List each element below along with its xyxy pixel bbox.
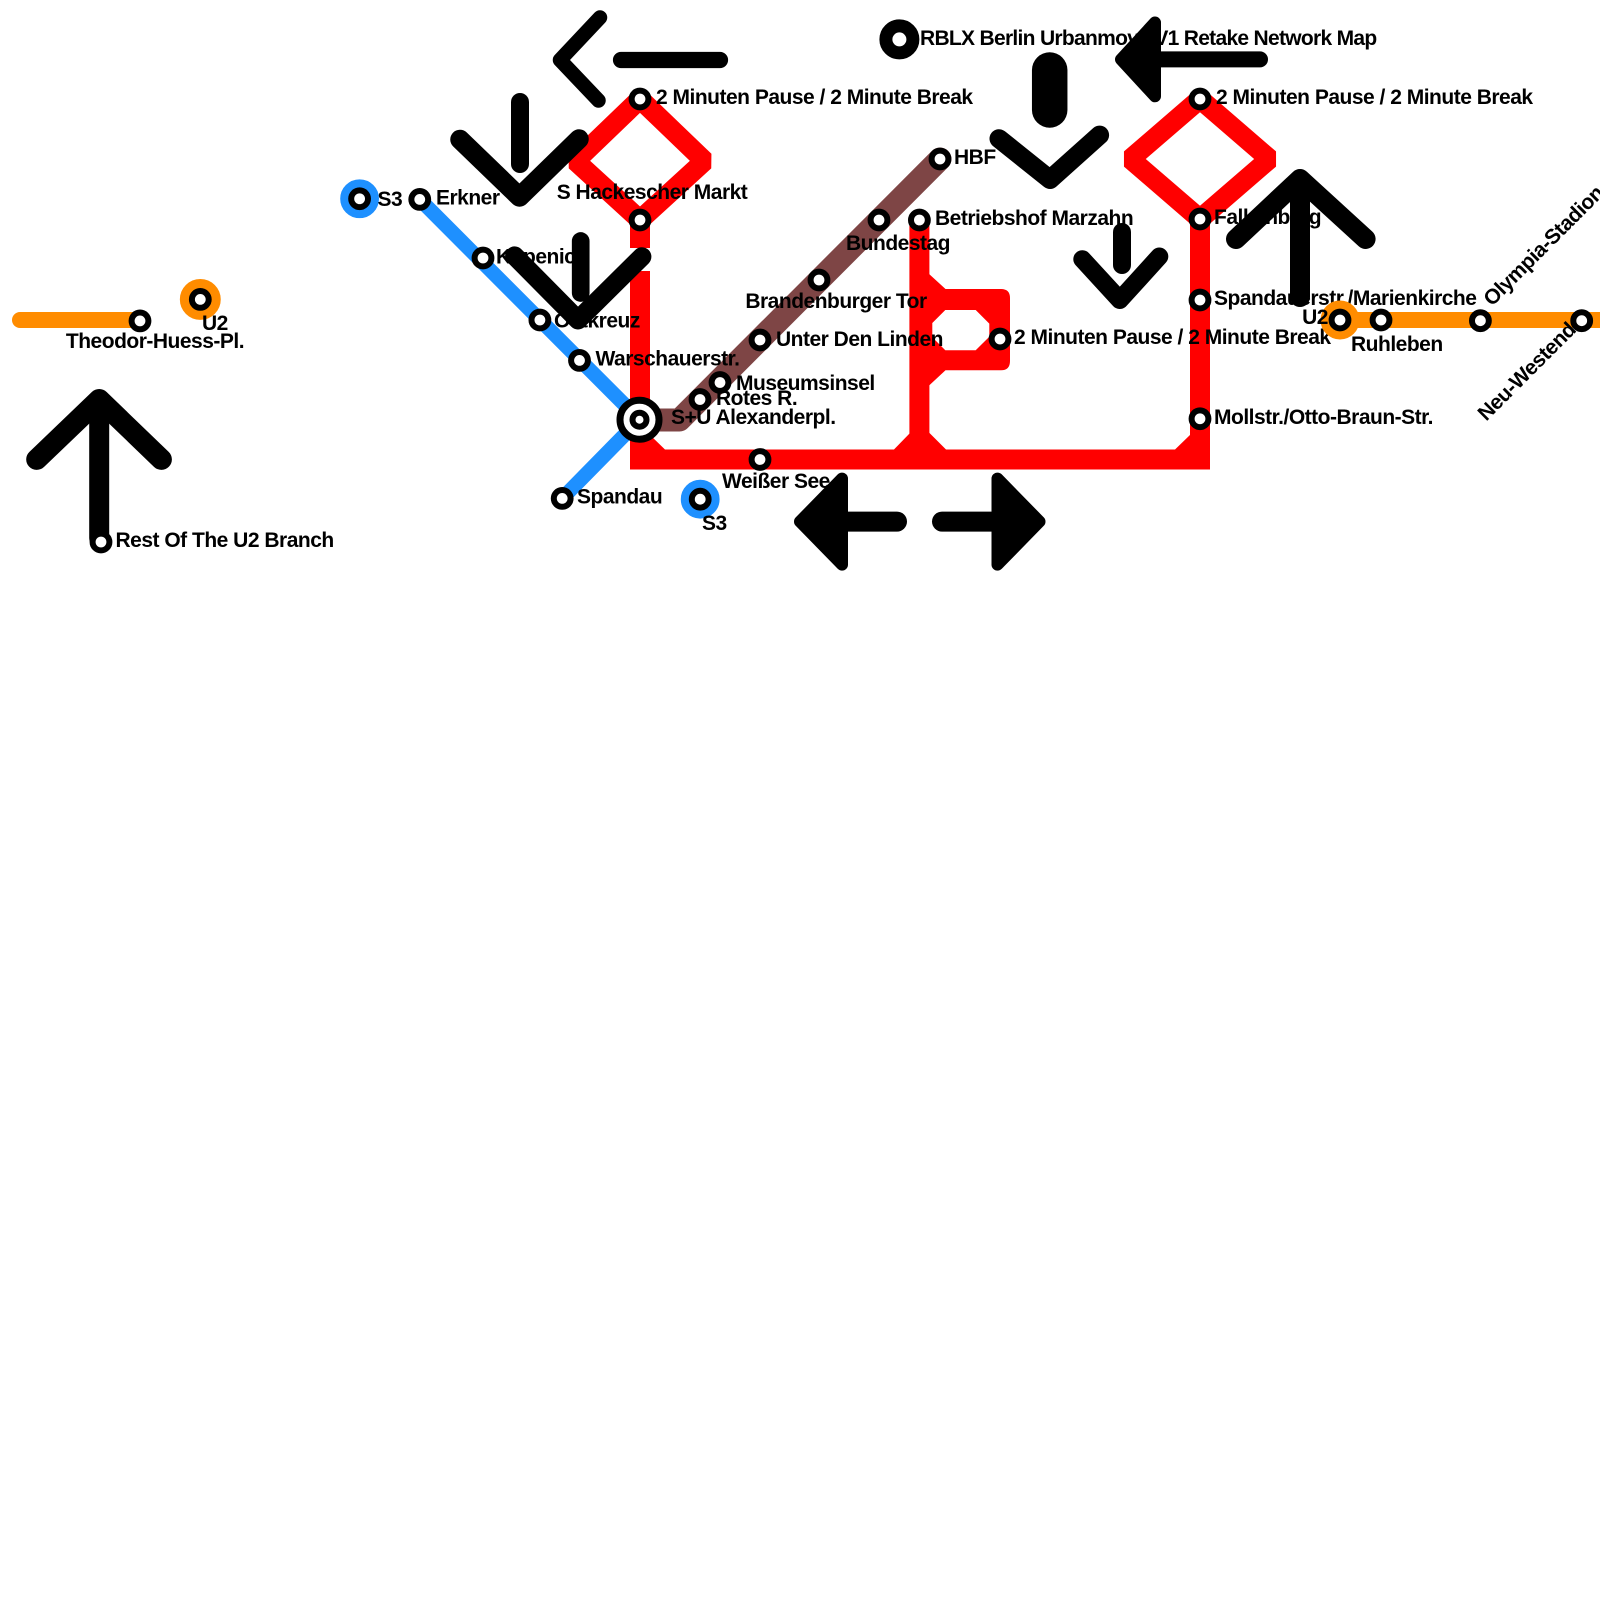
red corner fillet left (649, 434, 666, 451)
arrow right bottom (942, 512, 994, 532)
station Koepenick (475, 250, 492, 267)
title arrow left (1150, 51, 1260, 67)
station Ruhleben (1373, 312, 1390, 329)
station Mollstr Otto-Braun-Str (1192, 410, 1209, 427)
bar top-left (621, 52, 720, 68)
U2 terminal ring left (186, 285, 215, 314)
station Warschauerstr (571, 352, 588, 369)
svg-text:Ostkreuz: Ostkreuz (554, 309, 640, 332)
red main loop: left vertical, bottom horizontal, right vertical (640, 219, 1200, 460)
station Theodor-Huess-Pl. (132, 313, 149, 330)
station Falkenberg (1192, 211, 1209, 228)
svg-text:Brandenburger Tor: Brandenburger Tor (745, 290, 927, 313)
S3 terminal ring left (345, 184, 374, 213)
svg-text:Falkenberg: Falkenberg (1214, 206, 1321, 229)
black capsule bar (1032, 70, 1068, 110)
U2 terminal ring right (1326, 306, 1354, 334)
arrow left bottom (845, 512, 897, 532)
line U2 right orange (1340, 312, 1600, 328)
station 2 Minuten Pause P loop (992, 331, 1009, 348)
arrow down (Marzahn) (1113, 232, 1131, 265)
station Erkner (411, 191, 428, 208)
station S Hackescher Markt (632, 212, 649, 229)
svg-text:Mollstr./Otto-Braun-Str.: Mollstr./Otto-Braun-Str. (1214, 406, 1433, 429)
svg-text:Museumsinsel: Museumsinsel (736, 372, 875, 395)
station S+U Alexanderpl bullseye (620, 400, 659, 439)
station 2 Minuten Pause right top (1192, 91, 1209, 108)
arrow up Rest Of The U2 Branch (89, 405, 109, 538)
line S3 blue (420, 199, 640, 498)
red P loop (928, 273, 1010, 387)
svg-text:Erkner: Erkner (436, 187, 500, 210)
station Bundestag (871, 212, 888, 229)
svg-text:Spandau: Spandau (577, 485, 662, 508)
red diamond left (576, 99, 705, 220)
svg-text:HBF: HBF (954, 146, 996, 169)
station Neu-Westend (1573, 312, 1590, 329)
line brown regional Alexanderpl-HBF (640, 159, 941, 420)
red stub below Hackescher Markt (630, 220, 650, 248)
black V chevron (999, 135, 1100, 179)
station Brandenburger Tor (811, 272, 828, 289)
svg-text:Warschauerstr.: Warschauerstr. (596, 347, 740, 370)
arrow left chevron top-left (560, 18, 600, 101)
title station dot (886, 26, 913, 53)
arrow down (Ostkreuz) (572, 241, 590, 293)
station Olympia-Stadion (1472, 312, 1489, 329)
svg-text:Weißer See: Weißer See (722, 470, 830, 493)
red diamond right (1131, 99, 1270, 219)
station Spandauerstr Marienkirche (1192, 292, 1209, 309)
station Rest Of The U2 Branch (93, 534, 110, 551)
station Unter Den Linden (752, 332, 769, 349)
svg-text:Unter Den Linden: Unter Den Linden (776, 328, 943, 351)
station Betriebshof Marzahn (911, 212, 928, 229)
svg-text:Ruhleben: Ruhleben (1351, 333, 1443, 356)
svg-text:S3: S3 (702, 512, 727, 535)
line U2 left orange segment (20, 312, 136, 328)
svg-text:Rest Of The U2 Branch: Rest Of The U2 Branch (116, 529, 334, 552)
station Ostkreuz (532, 312, 549, 329)
S3 terminal ring bottom (686, 485, 715, 514)
svg-text:S3: S3 (378, 188, 403, 211)
station Weisser See (752, 451, 769, 468)
svg-text:S Hackescher Markt: S Hackescher Markt (557, 181, 748, 204)
station Rotes R (692, 391, 709, 408)
svg-text:U2: U2 (1302, 306, 1328, 329)
svg-text:Köpenick: Köpenick (496, 246, 587, 269)
station Spandau (554, 490, 571, 507)
svg-text:U2: U2 (202, 312, 228, 335)
svg-text:2 Minuten Pause / 2 Minute Bre: 2 Minuten Pause / 2 Minute Break (1014, 326, 1331, 349)
station HBF (932, 151, 949, 168)
arrow down big (Hackescher) (511, 102, 529, 164)
red corner fillet right (1174, 434, 1191, 451)
station 2 Minuten Pause left (632, 91, 649, 108)
svg-text:2 Minuten Pause / 2 Minute Bre: 2 Minuten Pause / 2 Minute Break (1216, 86, 1533, 109)
svg-text:2 Minuten Pause / 2 Minute Bre: 2 Minuten Pause / 2 Minute Break (656, 86, 973, 109)
red T junction flare (893, 433, 947, 451)
arrow up right (1290, 190, 1310, 297)
svg-text:Betriebshof Marzahn: Betriebshof Marzahn (935, 207, 1133, 230)
red vertical Betriebshof Marzahn line (909, 220, 929, 459)
station Museumsinsel (712, 374, 729, 391)
svg-text:Bundestag: Bundestag (846, 232, 950, 255)
